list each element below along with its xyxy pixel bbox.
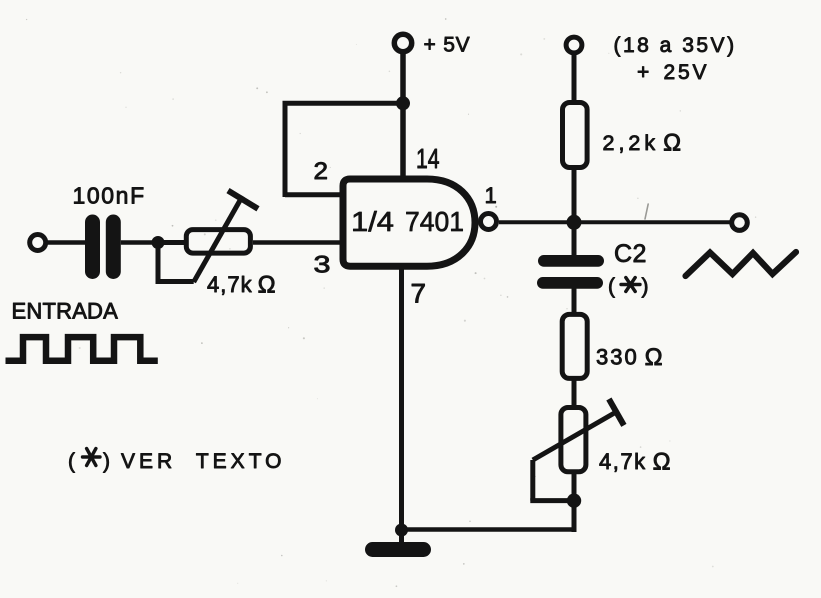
svg-text:ENTRADA: ENTRADA xyxy=(12,299,119,324)
wire node A to trimmer P1 xyxy=(158,240,185,245)
wire pin 7 down xyxy=(399,266,404,530)
resistor R2 330 body xyxy=(562,314,587,378)
trimmer P1 wiper bar xyxy=(228,191,258,209)
trimmer P2 wiper diagonal xyxy=(533,412,617,461)
ground bar xyxy=(365,542,431,557)
svg-text:330: 330 xyxy=(596,345,639,370)
resistor R1 2,2k body xyxy=(563,103,588,168)
+25V terminal xyxy=(566,37,582,53)
svg-text:(18 a 35V): (18 a 35V) xyxy=(614,34,737,57)
svg-text:+: + xyxy=(637,61,649,84)
svg-text:100nF: 100nF xyxy=(73,183,146,209)
wire +25V to R1 xyxy=(572,55,577,101)
svg-text:4,7k: 4,7k xyxy=(207,272,253,297)
label (*) near C2 xyxy=(608,275,649,298)
NAND gate U1 body 1/4 7401 xyxy=(343,179,475,266)
note (*) VER TEXTO xyxy=(68,449,285,474)
wire J1 to C1 xyxy=(48,240,86,245)
ground stem xyxy=(399,530,404,545)
feedback wire pin2 horizontal xyxy=(285,192,343,197)
svg-text:14: 14 xyxy=(416,143,440,174)
+5V terminal xyxy=(394,34,411,51)
junction dot at +5V feedback xyxy=(396,96,410,110)
svg-text:): ) xyxy=(103,450,110,473)
svg-text:Ω: Ω xyxy=(258,272,276,299)
wire +5V down to pin 14 xyxy=(400,54,406,179)
trimmer P2 wiper bar xyxy=(609,399,624,425)
svg-text:7: 7 xyxy=(411,279,427,309)
wiper tie wire P2 vertical xyxy=(530,460,535,501)
feedback wire left vertical xyxy=(283,103,288,197)
svg-text:Ω: Ω xyxy=(645,344,663,371)
svg-text:3: 3 xyxy=(314,252,331,279)
ground junction dot xyxy=(395,524,408,537)
trimmer P1 wiper diagonal xyxy=(194,196,243,282)
svg-text:(: ( xyxy=(608,275,615,298)
sawtooth output symbol xyxy=(686,252,797,276)
trimmer P2 body 4,7k xyxy=(561,408,586,472)
wire R2 to P2 xyxy=(572,380,577,406)
trimmer P1 body 4,7k xyxy=(186,230,250,254)
svg-text:): ) xyxy=(642,275,649,298)
svg-text:(: ( xyxy=(68,450,75,473)
junction dot P2 bottom xyxy=(567,494,581,508)
capacitor C1 100nF xyxy=(85,215,121,280)
wiper tie wire P2 horizontal xyxy=(530,498,574,503)
svg-text:VER TEXTO: VER TEXTO xyxy=(121,450,285,473)
node A junction dot xyxy=(152,236,165,249)
input terminal J1 xyxy=(30,235,46,251)
svg-text:2: 2 xyxy=(314,158,329,185)
svg-text:2,2k: 2,2k xyxy=(603,131,660,155)
wire output node down to C2 xyxy=(572,222,577,256)
svg-text:25V: 25V xyxy=(664,61,710,84)
bottom wire to right branch xyxy=(402,527,575,532)
svg-text:Ω: Ω xyxy=(663,130,681,157)
gate output bubble xyxy=(481,214,497,230)
wire C1 to node A xyxy=(121,240,158,245)
wire R1 to output node xyxy=(572,170,577,222)
wire wiper tie bottom xyxy=(156,279,194,284)
svg-text:+ 5V: + 5V xyxy=(424,34,471,57)
input square wave symbol xyxy=(6,337,158,361)
svg-text:4,7k: 4,7k xyxy=(599,449,647,474)
output node junction dot xyxy=(567,215,582,230)
svg-text:C2: C2 xyxy=(614,240,647,268)
svg-text:7401: 7401 xyxy=(405,206,464,237)
output terminal J2 xyxy=(732,215,748,231)
stray scan mark xyxy=(645,204,648,219)
wire node A down (wiper tie) xyxy=(156,243,161,282)
svg-text:1/4: 1/4 xyxy=(351,206,394,237)
wire C2 to R2 xyxy=(572,288,577,313)
feedback wire top horizontal xyxy=(283,101,404,106)
svg-text:Ω: Ω xyxy=(653,449,671,476)
svg-text:1: 1 xyxy=(485,183,497,208)
wire P2 to bottom wire xyxy=(572,474,577,532)
capacitor C2 plates xyxy=(537,255,604,289)
wire P1 to gate pin 3 xyxy=(253,240,343,244)
output wire pin1 to J2 xyxy=(499,220,730,224)
